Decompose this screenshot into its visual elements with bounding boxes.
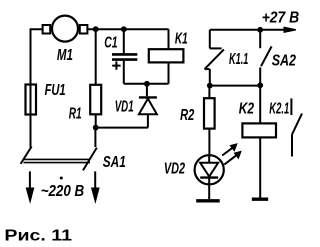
wire +27V arrow (210, 27, 296, 32)
node junction SA2/top (257, 27, 263, 33)
node junction K2/mid (257, 82, 263, 88)
svg-text:SA1: SA1 (103, 154, 126, 171)
contact K2.1 (291, 98, 302, 156)
capacitor C1 (112, 29, 137, 84)
label K2.1 (269, 100, 289, 117)
LED VD2 (195, 155, 224, 199)
svg-text:+27 В: +27 В (262, 9, 300, 26)
svg-text:R2: R2 (180, 107, 194, 124)
terminal bar VD2 (196, 199, 220, 202)
svg-text:K2: K2 (239, 100, 254, 117)
svg-text:C1: C1 (104, 35, 117, 52)
label M1 (57, 47, 73, 64)
svg-text:M1: M1 (57, 47, 73, 64)
motor M1 (43, 16, 88, 42)
node junction VD1 cathode (144, 81, 150, 87)
wire C1 bottom bus (124, 83, 169, 85)
label K2 (239, 100, 254, 117)
wire R1 bottom lead (95, 114, 97, 127)
node junction R1/SA1 (93, 125, 99, 131)
fuse FU1 (26, 85, 37, 115)
resistor R2 (204, 86, 215, 156)
label SA2 (272, 53, 296, 70)
terminal bar K2 (252, 197, 268, 200)
label R1 (69, 106, 82, 123)
svg-text:K2.1: K2.1 (269, 100, 289, 117)
wire motor to K1 branch (top bus) (87, 28, 168, 30)
label VD2 (164, 161, 185, 178)
switch SA1 (21, 147, 97, 171)
svg-text:K1: K1 (175, 31, 188, 48)
label K1.1 (229, 51, 248, 68)
svg-text:Рис. 11: Рис. 11 (4, 228, 72, 245)
label C1 (104, 35, 117, 52)
svg-text:FU1: FU1 (45, 82, 66, 99)
label FU1 (45, 82, 66, 99)
wire mains arrow left (26, 171, 33, 202)
svg-text:SA2: SA2 (272, 53, 296, 70)
relay coil K2 (242, 85, 276, 197)
label R2 (180, 107, 194, 124)
wire SA1 right pole lead (94, 128, 96, 147)
switch SA2 (260, 30, 271, 86)
caption Рис. 11 (4, 228, 72, 245)
wire top-left rail to motor (31, 29, 43, 85)
LED emission arrow 1 (222, 144, 237, 156)
wire FU1 to SA1 left pole (30, 115, 32, 148)
LED emission arrow 2 (224, 151, 241, 164)
label +27V (262, 9, 300, 26)
label ~220V (41, 177, 84, 201)
svg-text:R1: R1 (69, 106, 82, 123)
label VD1 (115, 98, 134, 115)
node junction C1/top (121, 26, 127, 32)
svg-text:VD2: VD2 (164, 161, 185, 178)
label SA1 (103, 154, 126, 171)
resistor R1 (90, 85, 101, 115)
node junction R2/mid (207, 83, 213, 89)
svg-text:~220 В: ~220 В (41, 183, 84, 200)
label K1 (175, 31, 188, 48)
node junction R1/top (93, 26, 99, 32)
wire mid bus (210, 85, 260, 87)
relay coil K1 (149, 29, 184, 84)
svg-text:VD1: VD1 (115, 98, 134, 115)
diode VD1 (139, 84, 157, 128)
contact K1.1 (205, 30, 224, 86)
svg-text:K1.1: K1.1 (229, 51, 248, 68)
wire bottom-left bus (96, 127, 148, 129)
wire mains arrow right (92, 171, 99, 202)
wire R1 top lead (95, 29, 97, 85)
